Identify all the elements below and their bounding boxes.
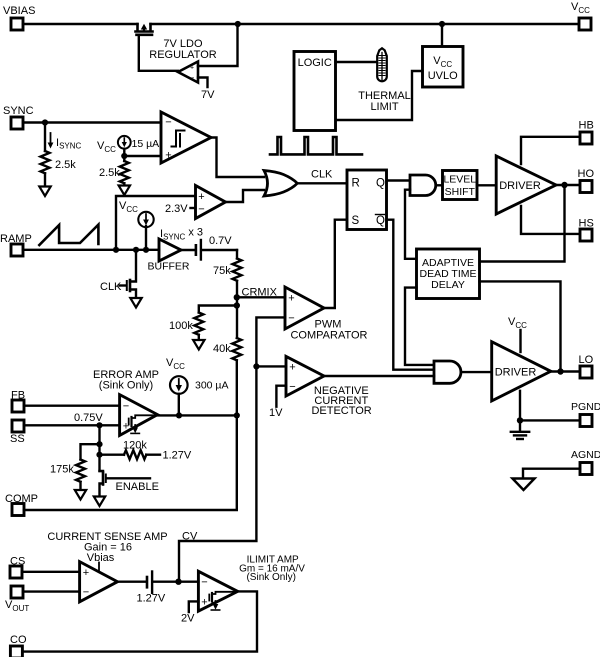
wire ILIMIT 2V reference (189, 601, 199, 612)
wire PGND (520, 391, 580, 421)
svg-text:LO: LO (579, 354, 594, 366)
pad HO (580, 181, 592, 193)
svg-text:AGND: AGND (571, 449, 600, 461)
svg-text:LIMIT: LIMIT (370, 101, 398, 113)
svg-text:−: − (289, 381, 295, 393)
svg-text:RAMP: RAMP (0, 233, 32, 245)
svg-text:1.27V: 1.27V (163, 450, 192, 462)
svg-text:SHIFT: SHIFT (445, 186, 476, 198)
wire LDO gate loop (139, 35, 178, 71)
svg-text:SS: SS (10, 433, 25, 445)
wire ILIMIT output to CO (22, 591, 257, 651)
wire NCD 1V reference (276, 386, 286, 407)
op-amp current sense amp (80, 562, 118, 602)
battery 1.27V (118, 581, 146, 583)
resistor 40k (232, 338, 241, 360)
block LEVEL SHIFT (443, 171, 478, 200)
gate AND2 (LO path) (434, 361, 461, 383)
gate OR1 clock (264, 171, 297, 197)
pad VOUT (11, 586, 23, 598)
transistor ILIMIT sink (209, 592, 234, 605)
wire LDO feedback to rail (198, 24, 238, 66)
block LOGIC (294, 52, 336, 131)
svg-text:−: − (123, 401, 129, 413)
ground AGND (triangle) (513, 479, 535, 491)
node CRMIX (234, 294, 240, 300)
svg-text:+: + (201, 597, 207, 609)
wire AND2 to LO driver (461, 371, 492, 373)
node NCD + branch (253, 363, 259, 369)
driver HO (496, 156, 556, 214)
transistor error amp sink (129, 415, 154, 428)
resistor 2.5k (threshold) (123, 156, 125, 161)
svg-text:+: + (288, 293, 294, 305)
wire level shift to driver (477, 184, 496, 186)
svg-text:2V: 2V (181, 613, 195, 625)
svg-text:DRIVER: DRIVER (499, 180, 541, 192)
node VCC rail junction at LDO (235, 21, 241, 27)
resistor 120k (100, 454, 125, 456)
resistor 175k (81, 444, 100, 459)
svg-text:R: R (352, 178, 360, 190)
wire AND1 second input to ADTD (405, 190, 417, 259)
waveform clock pulses (270, 137, 362, 154)
svg-text:COMP: COMP (5, 493, 38, 505)
gate AND1 (HO path) (410, 175, 436, 196)
pad VCC (top right) (579, 18, 591, 30)
svg-text:HS: HS (579, 218, 594, 230)
svg-text:+: + (289, 362, 295, 374)
block VCC UVLO (423, 47, 464, 88)
wire ramp to 2.3V comparator (116, 196, 196, 250)
node CRMIX lower (234, 302, 240, 308)
pad CO (10, 646, 22, 657)
pad HS (580, 229, 592, 241)
node 40k bottom junction (234, 412, 240, 418)
wire NCD output to AND2 (324, 375, 434, 377)
svg-text:40k: 40k (213, 343, 231, 355)
svg-text:1.27V: 1.27V (137, 593, 166, 605)
node CV junction (175, 579, 181, 585)
ground (SYNC 2.5k) (39, 187, 50, 197)
comparator negative current detector (286, 356, 324, 396)
node ramp junction A (113, 247, 119, 253)
ground (CLK fet) (130, 298, 141, 308)
wire FB (24, 405, 120, 407)
svg-text:VBIAS: VBIAS (3, 5, 35, 17)
svg-text:2.5k: 2.5k (99, 167, 120, 179)
svg-text:FB: FB (11, 390, 25, 402)
battery 0.7V (181, 249, 195, 251)
wire VCC rail (23, 23, 579, 25)
pad CS (10, 566, 22, 578)
wire CS (22, 571, 80, 573)
svg-text:REGULATOR: REGULATOR (149, 49, 216, 61)
wire HB boot (521, 137, 580, 164)
svg-text:2.3V: 2.3V (165, 203, 188, 215)
resistor 2.5k (SYNC) (44, 123, 46, 152)
svg-text:SYNC: SYNC (3, 105, 34, 117)
svg-text:+: + (198, 191, 204, 203)
node ramp junction B (133, 247, 139, 253)
wire AND1 to level shift (436, 184, 443, 186)
pad SYNC (11, 117, 23, 129)
svg-text:300 µA: 300 µA (195, 380, 229, 392)
pad SS (12, 420, 24, 432)
op-amp U1 7V LDO error amp (178, 62, 198, 83)
svg-text:−: − (83, 587, 89, 599)
wire RAMP bus (23, 249, 159, 251)
node 175k junction (96, 441, 102, 447)
node ramp junction C (143, 247, 149, 253)
svg-text:15 µA: 15 µA (132, 138, 160, 150)
wire 15uA to comparator + (124, 149, 161, 156)
wire UVLO supply (441, 24, 443, 47)
svg-text:CLK: CLK (311, 169, 333, 181)
wire VOUT (23, 590, 80, 592)
wire COMP (24, 415, 237, 510)
pad AGND (580, 463, 592, 475)
wire PWM - input / CV bus (179, 317, 285, 581)
waveform sawtooth ramp (39, 225, 98, 245)
driver LO (492, 342, 551, 401)
wire ADTD LO sense (480, 281, 561, 371)
ground (enable fet) (94, 497, 105, 507)
svg-text:75k: 75k (213, 265, 231, 277)
wire Qbar down to AND2 (387, 220, 435, 370)
pad RAMP (11, 244, 23, 256)
wire HS return (521, 206, 580, 234)
svg-text:−: − (165, 117, 171, 129)
wire sync comp output to OR (211, 138, 264, 178)
wire UVLO to LOGIC (336, 71, 423, 120)
svg-text:0.7V: 0.7V (209, 235, 232, 247)
svg-text:LOGIC: LOGIC (298, 57, 332, 69)
svg-text:+: + (165, 150, 171, 162)
wire HO sense to ADTD (480, 185, 565, 262)
svg-text:PGND: PGND (571, 401, 600, 413)
svg-text:DETECTOR: DETECTOR (311, 405, 371, 417)
svg-text:Q: Q (376, 178, 385, 190)
buffer amp (159, 239, 181, 261)
label ISYNC arrow (50, 133, 52, 144)
wire SS node down (98, 425, 100, 471)
pad COMP (12, 504, 24, 516)
wire 7V reference (198, 78, 208, 88)
transistor Q1 LDO pass (136, 24, 153, 35)
node HO junction (561, 182, 567, 188)
ground (100k) (193, 340, 204, 350)
wire to NCD + (256, 365, 286, 367)
block ADAPTIVE DEAD TIME DELAY (417, 249, 480, 299)
svg-text:7V: 7V (201, 89, 215, 101)
resistor 100k (199, 306, 237, 313)
wire SS (24, 424, 120, 426)
svg-text:S: S (352, 215, 360, 227)
svg-text:COMPARATOR: COMPARATOR (290, 330, 367, 342)
wire SYNC to comparator (23, 121, 161, 123)
svg-text:(Sink Only): (Sink Only) (99, 380, 153, 392)
wire ADTD to AND2 (405, 288, 434, 365)
node 120k junction (96, 452, 102, 458)
node SYNC junction (42, 119, 48, 125)
svg-text:175k: 175k (50, 464, 74, 476)
wire HO output (556, 184, 580, 186)
svg-text:DRIVER: DRIVER (495, 367, 537, 379)
pad PGND (580, 415, 592, 427)
svg-text:CLK: CLK (100, 281, 122, 293)
flip-flop RS (347, 170, 387, 230)
node 300uA junction (176, 412, 182, 418)
resistor 75k (236, 250, 238, 259)
op-amp error amp (120, 395, 158, 436)
wire LO output (551, 370, 580, 372)
svg-text:ENABLE: ENABLE (116, 481, 159, 493)
svg-text:DELAY: DELAY (431, 279, 465, 291)
ground (175k) (75, 490, 86, 500)
svg-text:−: − (190, 74, 195, 83)
node 15uA/2.5k junction (121, 153, 127, 159)
svg-text:−: − (198, 204, 204, 216)
transistor ENABLE (100, 471, 104, 472)
svg-text:UVLO: UVLO (428, 70, 458, 82)
svg-text:+: + (190, 65, 194, 72)
ground power (3-bar) (519, 420, 521, 431)
wire 2.3V comp output to OR (226, 190, 265, 202)
svg-text:CS: CS (10, 556, 25, 568)
svg-text:+: + (83, 567, 89, 579)
comparator PWM (285, 287, 324, 329)
wire PWM output to flip-flop S (324, 220, 347, 308)
svg-text:HO: HO (578, 168, 595, 180)
pad VBIAS (11, 18, 23, 30)
ground (threshold 2.5k) (119, 186, 130, 196)
pad FB (12, 400, 24, 412)
wire Q to AND1 (387, 179, 411, 181)
pad LO (580, 366, 592, 378)
svg-text:BUFFER: BUFFER (148, 261, 190, 273)
svg-text:−: − (201, 577, 207, 589)
node VCC rail junction at UVLO (439, 21, 445, 27)
node PGND junction (517, 417, 523, 423)
svg-text:120k: 120k (123, 440, 147, 452)
node LO junction (557, 368, 563, 374)
svg-text:Q: Q (376, 215, 385, 227)
svg-text:2.5k: 2.5k (55, 159, 76, 171)
thermometer THERMAL LIMIT (377, 48, 387, 81)
wire error amp output (158, 414, 237, 416)
wire AGND (523, 469, 580, 479)
op-amp ILIMIT (198, 571, 237, 611)
wire CRMIX to PWM + (237, 296, 285, 298)
comparator 2.3V (196, 186, 226, 219)
svg-text:(Sink Only): (Sink Only) (246, 572, 295, 583)
node SS junction (96, 422, 102, 428)
svg-text:−: − (288, 313, 294, 325)
svg-text:CV: CV (182, 531, 198, 543)
svg-text:CO: CO (10, 634, 27, 646)
comparator sync (hysteresis) (161, 112, 211, 163)
wire LOGIC to thermal limit (336, 61, 377, 63)
svg-text:LEVEL: LEVEL (443, 174, 476, 186)
svg-text:HB: HB (579, 120, 594, 132)
svg-text:Vbias: Vbias (87, 552, 115, 564)
svg-text:0.75V: 0.75V (74, 412, 103, 424)
pad HB (580, 132, 592, 144)
wire CLK to flip-flop R (297, 182, 347, 184)
svg-text:1V: 1V (269, 407, 283, 419)
svg-text:100k: 100k (169, 320, 193, 332)
